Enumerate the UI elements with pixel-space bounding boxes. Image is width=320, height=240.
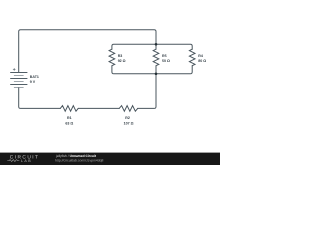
battery short plate 1 [14, 75, 24, 77]
wire right riser from bottom up to parallel bottom rail and R5 lead [138, 66, 156, 109]
wire parallel bottom rail with R3/R4 bottom leads [112, 66, 192, 74]
wire top loop: battery plus up, across top, down to parallel rail [19, 30, 156, 73]
svg-text:107 Ω: 107 Ω [124, 121, 134, 125]
resistor R2 zigzag [119, 106, 138, 112]
svg-text:92 Ω: 92 Ω [118, 59, 126, 63]
svg-text:http://circuitlab.com/c/zvpm4d: http://circuitlab.com/c/zvpm4dq8 [55, 159, 104, 163]
battery long plate 2 [10, 78, 27, 80]
wire bottom loop: battery minus down, bottom rail left part [19, 88, 61, 109]
battery long plate 3 [10, 84, 27, 86]
resistor R1 zigzag [60, 106, 78, 112]
svg-text:LAB: LAB [21, 159, 32, 163]
battery long plate 1 [10, 72, 27, 74]
svg-text:R2: R2 [125, 116, 130, 120]
wire parallel top rail with R3/R4 top leads [112, 44, 192, 49]
battery short plate 3 [14, 87, 24, 89]
svg-text:R3: R3 [118, 54, 123, 58]
svg-text:BAT1: BAT1 [30, 75, 39, 79]
battery short plate 2 [14, 81, 24, 83]
junction node bottom (riser/bottom rail) [155, 73, 158, 76]
battery plus sign [13, 68, 16, 71]
svg-text:80 Ω: 80 Ω [198, 59, 206, 63]
resistor R5 zigzag [153, 49, 159, 65]
svg-text:9 V: 9 V [30, 80, 36, 84]
junction node top (riser/top rail) [155, 43, 158, 46]
svg-text:R5: R5 [162, 54, 167, 58]
svg-text:63 Ω: 63 Ω [65, 121, 73, 125]
svg-text:50 Ω: 50 Ω [162, 59, 170, 63]
resistor R4 zigzag [189, 49, 195, 65]
svg-text:R4: R4 [198, 54, 203, 58]
wire between R1 and R2 [78, 107, 119, 109]
resistor R3 zigzag [109, 49, 115, 65]
battery BAT1 plates [10, 68, 27, 87]
svg-text:R1: R1 [67, 116, 72, 120]
footer bar [0, 153, 220, 165]
footer logo zigzag [7, 160, 19, 162]
